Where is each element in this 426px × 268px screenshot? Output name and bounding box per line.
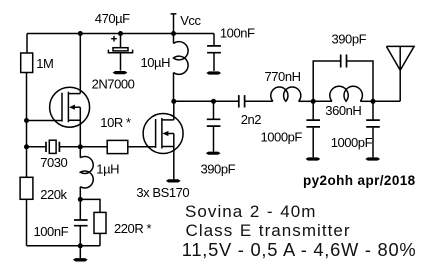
- wire: left vertical rail: [26, 34, 29, 246]
- svg-text:7030: 7030: [40, 155, 67, 170]
- capacitor 100nF (bottom left): [34, 199, 88, 245]
- ground (BS170 source): [166, 179, 181, 182]
- svg-text:2N7000: 2N7000: [92, 77, 135, 92]
- wire: gate of 2N7000 to rail: [27, 120, 63, 122]
- svg-text:1000pF: 1000pF: [261, 129, 303, 144]
- svg-text:10R *: 10R *: [100, 115, 131, 130]
- inductor L3 770nH: [265, 69, 301, 101]
- inductor L4 360nH: [313, 86, 373, 118]
- ground (below top 100nF): [206, 71, 221, 74]
- node: tank left: [311, 99, 316, 104]
- node: left rail / gate wire: [24, 118, 29, 123]
- wire: ground stub bottom-left: [79, 246, 81, 258]
- svg-text:390pF: 390pF: [201, 161, 236, 176]
- resistor 220k: [20, 177, 67, 202]
- svg-text:Vcc: Vcc: [180, 13, 201, 28]
- svg-text:1µH: 1µH: [96, 162, 119, 177]
- wire: bottom-left ground rail: [27, 245, 101, 247]
- wire: output net drain to 2n2: [174, 100, 239, 102]
- svg-text:10µH: 10µH: [141, 55, 171, 70]
- ground (bottom-left): [73, 258, 88, 261]
- svg-text:3x BS170: 3x BS170: [136, 185, 189, 200]
- svg-text:220k: 220k: [40, 187, 67, 202]
- antenna: [386, 46, 414, 101]
- wire: 770nH to tank: [299, 100, 314, 102]
- capacitor 390pF (tank, top): [332, 31, 367, 67]
- capacitor 100nF (top, Vcc bypass): [207, 26, 255, 71]
- resistor 1M: [21, 53, 54, 73]
- Vcc supply symbol: [171, 13, 202, 34]
- node: drain / 10µH / output: [171, 99, 176, 104]
- wire: crystal net from rail: [27, 146, 47, 148]
- node: output / 390pF: [211, 99, 216, 104]
- wire: 2N7000 source down to node: [79, 120, 81, 147]
- svg-text:Sovina 2 - 40m: Sovina 2 - 40m: [185, 202, 316, 221]
- ground (below 470µF): [113, 71, 128, 74]
- resistor 220R*: [94, 212, 151, 236]
- wire: crystal to source node: [59, 146, 107, 148]
- wire: BS170 source down to ground: [173, 147, 175, 180]
- svg-text:py2ohh apr/2018: py2ohh apr/2018: [303, 173, 416, 188]
- ground (below 390pF): [206, 152, 221, 155]
- svg-text:100nF: 100nF: [34, 224, 69, 239]
- svg-text:11,5V - 0,5 A - 4,6W - 80%: 11,5V - 0,5 A - 4,6W - 80%: [182, 239, 417, 260]
- capacitor C1 470µF electrolytic: [95, 11, 133, 71]
- wire: tank top loop: [313, 61, 373, 101]
- node: source / crystal / 10R / 1µH: [78, 144, 83, 149]
- svg-text:2n2: 2n2: [241, 112, 262, 127]
- transistor Q2 3x BS170: [136, 114, 189, 200]
- inductor L2 1µH: [80, 147, 119, 200]
- node: rail / Vcc / 10µH: [171, 31, 176, 36]
- node: rail / 470µF: [118, 31, 123, 36]
- wire: 2n2 to 770nH: [245, 100, 273, 102]
- svg-text:Class E transmitter: Class E transmitter: [186, 221, 351, 240]
- capacitor 390pF (shunt at drain): [201, 101, 236, 176]
- wire: tank to antenna: [373, 100, 400, 102]
- node: bottom rail / ground: [78, 243, 83, 248]
- svg-text:1M: 1M: [36, 56, 53, 71]
- wire: node to 220R: [80, 199, 100, 212]
- transistor Q1 2N7000: [50, 77, 135, 128]
- wire: 220R bottom to rail: [99, 233, 101, 245]
- crystal X1 7030: [40, 140, 67, 170]
- capacitor 1000pF (tank left): [261, 101, 321, 157]
- capacitor 2n2 (series): [239, 95, 261, 127]
- resistor 10R*: [100, 115, 131, 154]
- ground (tank left): [306, 157, 321, 160]
- svg-text:470µF: 470µF: [95, 11, 130, 26]
- svg-text:360nH: 360nH: [325, 103, 361, 118]
- svg-text:100nF: 100nF: [220, 26, 255, 41]
- svg-text:770nH: 770nH: [265, 69, 301, 84]
- wire: 10R to BS170 gate: [128, 146, 156, 148]
- node: tank right: [371, 99, 376, 104]
- wire: 2N7000 drain up to rail: [79, 34, 81, 94]
- inductor L1 10µH: [141, 34, 189, 102]
- node: rail / 2N7000 drain: [78, 31, 83, 36]
- svg-text:390pF: 390pF: [332, 31, 367, 46]
- svg-text:220R *: 220R *: [114, 221, 151, 236]
- svg-text:1000pF: 1000pF: [331, 135, 373, 150]
- capacitor 1000pF (tank right): [331, 101, 380, 157]
- wire: top supply rail: [27, 33, 214, 35]
- node: 1µH / 100nF / 220R: [78, 197, 83, 202]
- ground (tank right): [365, 157, 380, 160]
- node: left rail / crystal wire: [24, 144, 29, 149]
- wire: BS170 drain up to node: [173, 101, 175, 120]
